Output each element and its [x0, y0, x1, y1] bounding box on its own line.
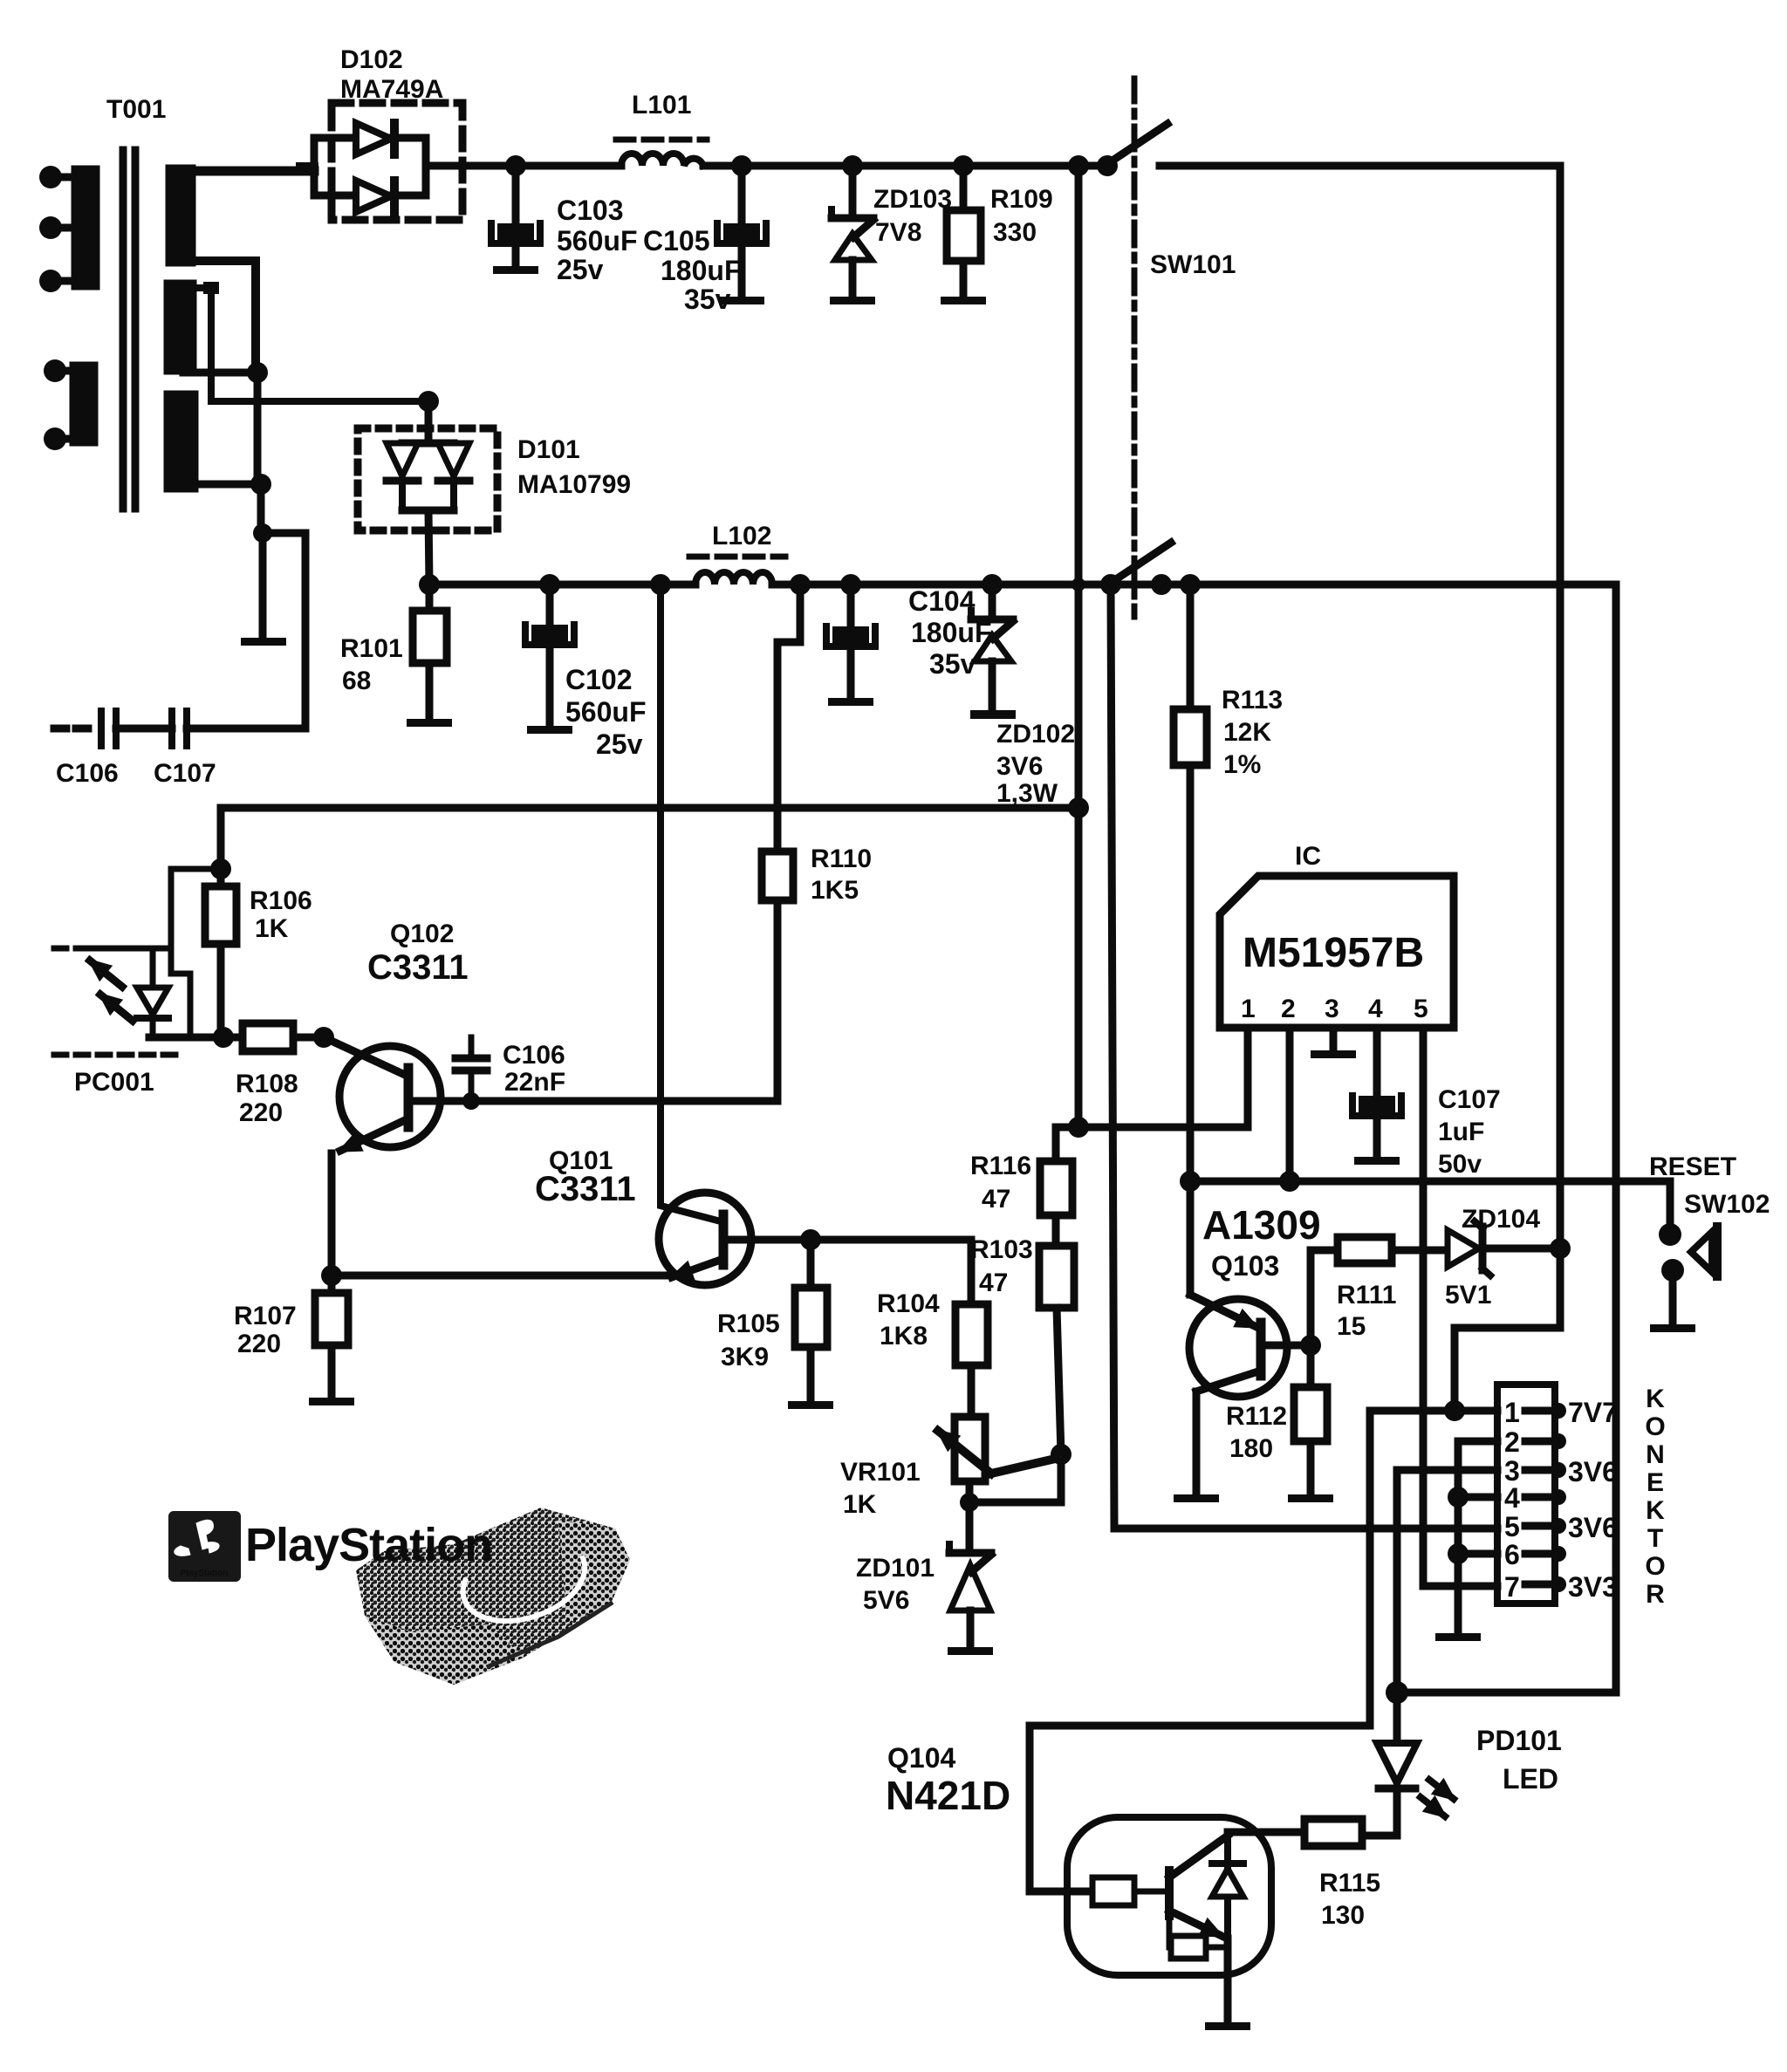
transformer T001 [39, 95, 195, 509]
resistor R113 [1187, 585, 1195, 709]
svg-text:C106: C106 [503, 1041, 565, 1070]
junction [247, 362, 268, 383]
resistor R109 [953, 155, 974, 176]
transistor Q104 N421D module [886, 1742, 1271, 1975]
ground [407, 719, 452, 727]
junction [1550, 1238, 1571, 1259]
wire Q104 emitter to ground [1224, 1939, 1232, 2022]
wire top bus right segment [1160, 162, 1560, 170]
svg-text:MA10799: MA10799 [517, 470, 631, 499]
svg-text:22nF: 22nF [504, 1068, 565, 1097]
wire 3V6 bus (after D101) [419, 574, 440, 595]
svg-text:5V1: 5V1 [1445, 1281, 1491, 1310]
svg-text:R103: R103 [970, 1235, 1033, 1264]
wire Q103 base [1261, 1342, 1311, 1350]
capacitor C107 1uF [1373, 1028, 1381, 1096]
svg-text:12K: 12K [1223, 718, 1271, 747]
wire emitter bus to Q101 [332, 1272, 672, 1280]
junction [1659, 1223, 1681, 1246]
svg-text:N421D: N421D [886, 1773, 1010, 1818]
resistor R106 [210, 858, 231, 879]
svg-text:ZD103: ZD103 [873, 185, 952, 214]
svg-text:Q103: Q103 [1211, 1250, 1279, 1282]
svg-text:N: N [1646, 1440, 1665, 1469]
zener ZD101 [966, 1502, 974, 1553]
ground [241, 638, 286, 646]
junction [1661, 1259, 1684, 1282]
transistor Q101 [535, 585, 751, 1285]
svg-text:68: 68 [342, 667, 371, 695]
svg-text:M51957B: M51957B [1243, 930, 1424, 976]
wire winding2 tap to D101 [203, 282, 219, 294]
svg-text:C104: C104 [908, 585, 976, 617]
svg-text:R111: R111 [1337, 1281, 1396, 1310]
svg-text:47: 47 [979, 1269, 1008, 1297]
junction [1279, 1171, 1300, 1192]
svg-text:PlayStation: PlayStation [245, 1519, 492, 1571]
capacitor C104 [840, 574, 861, 595]
ground [828, 698, 873, 706]
svg-text:R110: R110 [811, 845, 872, 873]
node winding2 bottom junction [183, 369, 259, 377]
svg-text:ZD104: ZD104 [1462, 1205, 1540, 1234]
svg-text:1uF: 1uF [1438, 1118, 1484, 1146]
wire 3V6 column to connector pin5 [1111, 585, 1114, 1528]
svg-text:220: 220 [237, 1330, 281, 1358]
svg-text:O: O [1645, 1412, 1665, 1441]
svg-text:330: 330 [993, 218, 1037, 247]
junction [1068, 797, 1089, 818]
svg-text:4: 4 [1504, 1482, 1520, 1514]
ground [1311, 1050, 1356, 1058]
svg-text:PC001: PC001 [74, 1068, 154, 1097]
wire right 7V8 drop [1557, 166, 1564, 1248]
svg-text:1K: 1K [843, 1490, 877, 1519]
svg-text:Q104: Q104 [887, 1742, 955, 1774]
svg-text:560uF: 560uF [565, 696, 646, 728]
svg-text:25v: 25v [557, 254, 604, 285]
svg-text:1,3W: 1,3W [996, 779, 1058, 808]
wire opto emitter line [149, 1034, 243, 1042]
wire junction row to IC pin1 [1056, 1124, 1248, 1132]
ground [788, 1401, 833, 1409]
svg-text:PlayStation: PlayStation [181, 1569, 228, 1578]
svg-text:1%: 1% [1223, 750, 1261, 779]
wire IC pin 1 [1244, 1028, 1252, 1127]
svg-text:3V6: 3V6 [1568, 1456, 1618, 1487]
junction [250, 474, 271, 495]
rectifier D101 MA10799 [358, 391, 631, 585]
wire Q102 emitter drop [328, 1153, 336, 1275]
svg-text:4: 4 [1368, 995, 1383, 1023]
svg-text:R108: R108 [236, 1070, 298, 1098]
wire connector pin 7 (3V3) [1423, 1583, 1497, 1590]
svg-text:1K: 1K [255, 914, 289, 943]
svg-text:D101: D101 [517, 435, 580, 464]
svg-text:7: 7 [1504, 1571, 1520, 1603]
svg-text:VR101: VR101 [840, 1458, 921, 1487]
capacitor C106 (line filter) [54, 725, 96, 733]
svg-text:R112: R112 [1226, 1402, 1287, 1431]
svg-text:25v: 25v [596, 728, 643, 760]
svg-text:3K9: 3K9 [721, 1343, 769, 1371]
svg-text:1K8: 1K8 [880, 1322, 928, 1351]
svg-text:R109: R109 [990, 185, 1053, 214]
wire 7V8 rail horizontal [221, 804, 1078, 812]
junction [1300, 1335, 1321, 1356]
svg-text:7V8: 7V8 [875, 218, 921, 247]
resistor R105 [807, 1240, 815, 1288]
wire reset bus [1190, 1181, 1670, 1234]
wire Q102 base to R110 [408, 1098, 777, 1105]
svg-text:SW101: SW101 [1150, 250, 1236, 279]
wire Q101 base row [723, 1236, 971, 1244]
ground [309, 1398, 354, 1405]
svg-text:5: 5 [1504, 1511, 1520, 1542]
wire ZD104 node to connector pin1 [1455, 1248, 1560, 1411]
op-amp U1 IC M51957B [1220, 842, 1454, 1028]
svg-text:T001: T001 [106, 95, 166, 124]
junction [321, 1265, 342, 1286]
capacitor C106 22nF [469, 1037, 475, 1056]
ground [1435, 1633, 1481, 1641]
resistor R112 [1307, 1345, 1315, 1387]
junction [213, 1027, 234, 1048]
resistor R101 [426, 585, 434, 611]
svg-text:PD101: PD101 [1476, 1725, 1562, 1756]
zener ZD104 [1448, 1221, 1490, 1275]
ground [719, 297, 764, 304]
svg-text:T: T [1647, 1524, 1663, 1553]
svg-text:5V6: 5V6 [863, 1586, 909, 1615]
svg-text:K: K [1646, 1496, 1665, 1525]
svg-text:C106: C106 [56, 759, 119, 788]
svg-text:50v: 50v [1438, 1150, 1482, 1179]
resistor R110 [790, 574, 811, 595]
wire connector pin 2 to ground rail [1458, 1441, 1497, 1633]
svg-text:220: 220 [239, 1098, 283, 1127]
resistor R103 [1039, 1246, 1074, 1308]
wire LED rail [1397, 1689, 1616, 1697]
junction [1151, 574, 1172, 595]
svg-text:R105: R105 [717, 1310, 780, 1338]
svg-text:C3311: C3311 [367, 948, 469, 987]
svg-text:LED: LED [1503, 1763, 1558, 1795]
svg-text:C103: C103 [557, 195, 624, 226]
junction [313, 1027, 334, 1048]
junction [1180, 1171, 1201, 1192]
LED PD101 [1393, 1692, 1401, 1743]
junction [462, 1092, 480, 1110]
resistor R115 [1304, 1819, 1362, 1846]
svg-text:180: 180 [1229, 1434, 1273, 1463]
svg-text:A1309: A1309 [1202, 1202, 1321, 1248]
wire connector pin 4 [1458, 1494, 1497, 1501]
svg-text:15: 15 [1337, 1312, 1366, 1341]
connector KONEKTOR [1497, 1385, 1666, 1609]
resistor R108 [243, 1023, 293, 1051]
junction [1386, 1681, 1408, 1704]
junction [1448, 1543, 1469, 1564]
transistor Q102 [324, 920, 469, 1151]
wire 3V6 right drop [1612, 585, 1620, 1692]
PlayStation logo [168, 1511, 492, 1582]
zener ZD102 [982, 574, 1003, 595]
wire winding1 bottom elbow [183, 261, 256, 373]
svg-text:R115: R115 [1319, 1869, 1380, 1898]
svg-text:3V6: 3V6 [1568, 1512, 1618, 1543]
svg-text:L102: L102 [712, 522, 771, 550]
svg-text:R113: R113 [1222, 686, 1283, 715]
svg-text:ZD102: ZD102 [996, 720, 1075, 749]
junction [800, 1229, 821, 1250]
wire connector pin 1 (7V7) [1030, 1411, 1497, 1891]
potentiometer VR101 [955, 1417, 985, 1481]
ground [527, 726, 572, 734]
node top bus to vertical feeder [1068, 155, 1089, 176]
svg-text:1: 1 [1241, 995, 1256, 1023]
svg-text:R: R [1646, 1580, 1665, 1609]
resistor R104 [968, 1240, 976, 1304]
wire connector pin 6 [1458, 1550, 1497, 1558]
svg-text:6: 6 [1504, 1539, 1520, 1570]
svg-text:R106: R106 [250, 886, 312, 915]
ground [948, 1647, 993, 1655]
ground [830, 297, 875, 304]
svg-text:180uF: 180uF [661, 255, 741, 286]
svg-text:SW102: SW102 [1684, 1190, 1770, 1219]
svg-text:3: 3 [1325, 995, 1339, 1023]
wire connector pin 3 (3V6) [1397, 1470, 1497, 1692]
svg-text:ZD101: ZD101 [856, 1554, 935, 1583]
junction [1444, 1400, 1465, 1421]
optocoupler PC001 [54, 869, 221, 1097]
ground IC pin 3 [1330, 1028, 1338, 1050]
svg-text:R101: R101 [340, 634, 403, 663]
node Q101 collector riser [650, 574, 671, 595]
console sketch [356, 1508, 630, 1685]
svg-text:35v: 35v [684, 284, 731, 315]
junction [1051, 1444, 1072, 1465]
wire secondary winding1 top to D102 [181, 167, 314, 176]
ground [1288, 1494, 1333, 1502]
ground [1205, 2022, 1250, 2030]
wire center tap to C107 line [253, 523, 272, 543]
svg-text:C102: C102 [565, 664, 633, 695]
svg-text:7V7: 7V7 [1568, 1397, 1618, 1428]
svg-text:5: 5 [1414, 995, 1428, 1023]
capacitor C107 (line filter) [168, 711, 175, 746]
ground transformer center tap [259, 533, 267, 638]
svg-text:3V3: 3V3 [1568, 1571, 1618, 1603]
capacitor C105 [731, 155, 752, 176]
svg-text:35v: 35v [929, 648, 976, 680]
junction [1072, 578, 1085, 592]
svg-text:O: O [1645, 1552, 1665, 1581]
svg-text:R116: R116 [970, 1152, 1031, 1180]
svg-text:D102: D102 [340, 45, 403, 74]
svg-text:RESET: RESET [1649, 1152, 1736, 1181]
svg-text:1: 1 [1504, 1397, 1520, 1428]
svg-text:C3311: C3311 [535, 1170, 636, 1208]
rectifier D102 MA749A [300, 45, 462, 220]
resistor R107 [328, 1275, 336, 1293]
svg-text:IC: IC [1295, 842, 1321, 871]
svg-text:C105: C105 [643, 225, 710, 256]
junction [1068, 1117, 1089, 1138]
svg-text:2: 2 [1281, 995, 1296, 1023]
transistor Q103 A1309 [1174, 1181, 1321, 1502]
svg-text:L101: L101 [632, 91, 691, 120]
svg-text:K: K [1646, 1385, 1665, 1413]
wire IC pin 5 to connector pin 7 [1420, 1028, 1428, 1586]
svg-text:1K5: 1K5 [811, 876, 859, 905]
ground [493, 266, 538, 274]
svg-text:C107: C107 [1438, 1085, 1501, 1114]
junction [1448, 1487, 1469, 1508]
switch SW101 pole 2 [1100, 574, 1121, 595]
capacitor C102 [539, 574, 560, 595]
svg-text:R107: R107 [234, 1302, 297, 1330]
wire IC pin 2 [1286, 1028, 1294, 1181]
zener ZD103 [842, 155, 863, 176]
junction [1180, 574, 1201, 595]
svg-text:3V6: 3V6 [996, 752, 1043, 781]
svg-text:E: E [1647, 1468, 1664, 1497]
wire connector pin 5 (3V6) [1114, 1525, 1497, 1533]
node winding3 bottom junction [185, 481, 264, 489]
svg-text:130: 130 [1321, 1901, 1365, 1930]
junction [960, 1493, 979, 1512]
svg-text:Q102: Q102 [390, 920, 454, 948]
svg-text:2: 2 [1504, 1426, 1520, 1458]
wire top bus [426, 162, 621, 170]
ground [941, 297, 986, 304]
resistor R111 [1311, 1250, 1338, 1345]
svg-text:47: 47 [982, 1185, 1010, 1214]
svg-text:560uF: 560uF [557, 225, 637, 256]
svg-text:C107: C107 [154, 759, 216, 788]
capacitor C103 [505, 155, 526, 176]
wire 7V8 feeder vertical [1075, 166, 1083, 1127]
switch SW101 pole 1 [1097, 155, 1118, 176]
svg-text:R104: R104 [877, 1289, 940, 1318]
ground [1650, 1324, 1695, 1332]
ground [1354, 1157, 1400, 1165]
resistor R116 [1052, 1127, 1060, 1161]
